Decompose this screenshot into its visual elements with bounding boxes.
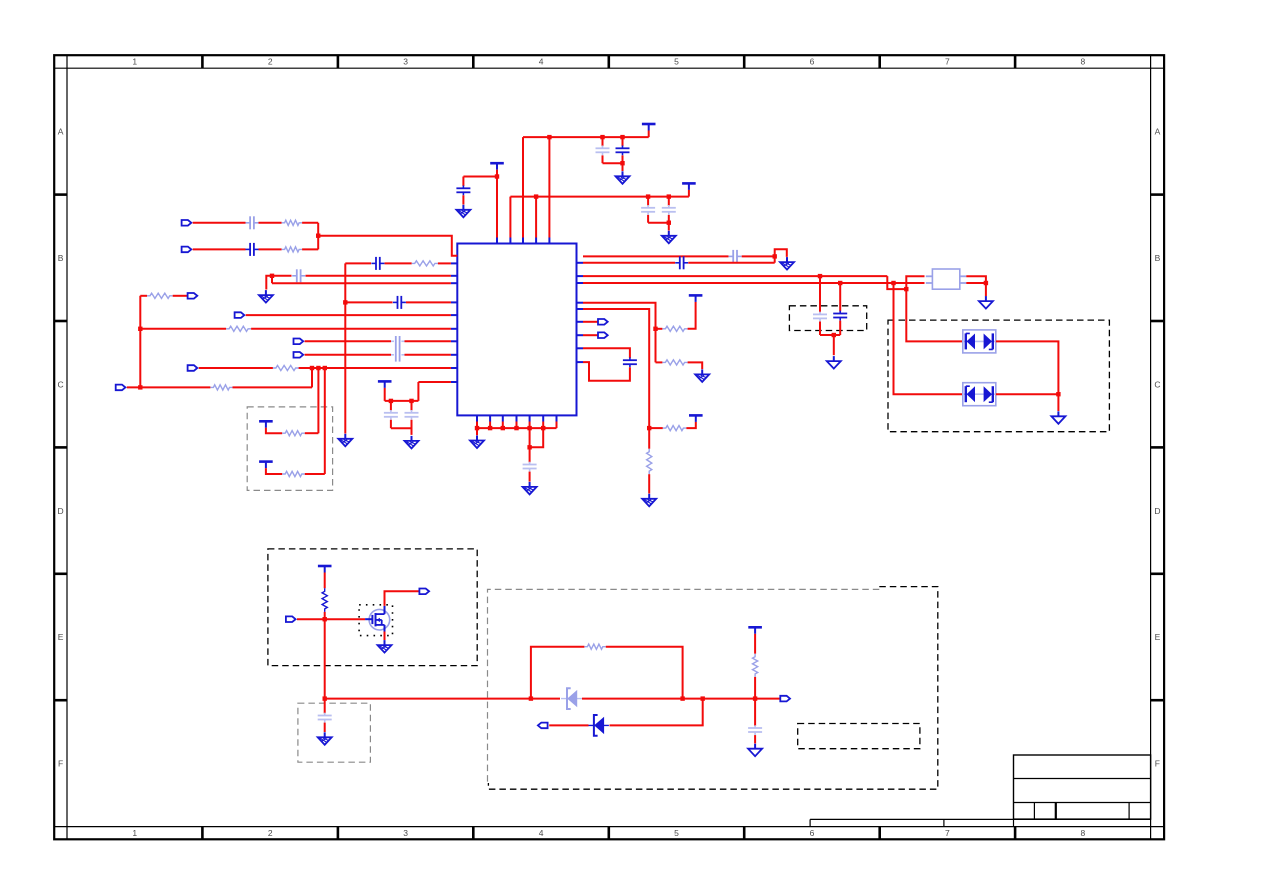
wire	[775, 249, 787, 262]
wire	[530, 428, 544, 447]
inductor L1	[926, 269, 967, 289]
resistor R6	[273, 365, 299, 370]
ground	[979, 296, 993, 309]
wire	[820, 334, 840, 336]
wire	[754, 634, 756, 654]
node junction	[680, 696, 684, 700]
wire	[656, 361, 663, 363]
capacitor C9	[596, 146, 610, 156]
wire	[272, 275, 292, 277]
node junction	[316, 366, 320, 370]
diode D1	[561, 688, 582, 709]
node junction	[547, 135, 551, 139]
wire	[894, 283, 963, 394]
pin P10	[598, 332, 608, 338]
wire	[311, 368, 313, 387]
ground	[695, 369, 709, 382]
wire	[405, 340, 451, 342]
wire	[418, 381, 451, 383]
ground	[338, 434, 352, 447]
wire	[583, 262, 675, 264]
capacitor C20	[318, 713, 332, 723]
wire	[305, 432, 319, 434]
node junction	[488, 426, 492, 430]
pin P8	[116, 385, 126, 391]
wire	[529, 472, 531, 482]
wire	[668, 215, 670, 223]
wire	[127, 386, 211, 388]
capacitor C1	[246, 216, 259, 229]
suppressor U3	[963, 383, 996, 406]
wire	[647, 197, 649, 206]
node junction	[527, 426, 531, 430]
capacitor C19	[523, 462, 537, 472]
wire	[686, 422, 695, 428]
capacitor C5	[393, 296, 406, 309]
resistor R16 (vertical)	[753, 654, 758, 677]
wire	[582, 698, 780, 700]
wire	[139, 296, 141, 388]
node junction	[270, 274, 274, 278]
wire	[549, 724, 588, 726]
wire	[477, 427, 557, 429]
suppressor U2	[963, 330, 996, 353]
wire	[996, 393, 1059, 395]
wire	[610, 699, 703, 726]
wire	[305, 340, 391, 342]
resistor R7	[210, 385, 232, 390]
svg-text:6: 6	[810, 57, 815, 67]
power VCC	[378, 381, 392, 388]
svg-text:A: A	[58, 127, 64, 137]
wire	[648, 131, 650, 138]
wire	[390, 401, 392, 411]
wire	[754, 735, 756, 743]
svg-text:1: 1	[132, 57, 137, 67]
wire	[266, 468, 282, 474]
svg-text:B: B	[1155, 253, 1161, 263]
wire	[193, 248, 246, 250]
pin P5	[294, 339, 304, 345]
U1 top pin stubs	[497, 238, 549, 244]
wire	[233, 386, 313, 388]
pin P11	[286, 616, 296, 622]
svg-text:2: 2	[268, 57, 273, 67]
svg-text:B: B	[58, 253, 64, 263]
wire	[647, 215, 649, 223]
wire	[648, 222, 669, 224]
wire	[649, 427, 663, 429]
wire	[602, 137, 604, 146]
wire	[535, 197, 537, 238]
power VCC	[259, 462, 273, 469]
wire	[668, 197, 670, 206]
node junction	[838, 281, 842, 285]
wire	[411, 420, 413, 428]
pin P6	[294, 352, 304, 358]
ground	[662, 231, 676, 244]
wire	[411, 401, 413, 411]
wire	[894, 282, 925, 284]
node junction	[323, 696, 327, 700]
ground	[318, 732, 332, 745]
svg-text:C: C	[1154, 379, 1160, 389]
wire	[477, 422, 557, 429]
ground	[523, 482, 537, 495]
wire	[583, 334, 598, 336]
wire	[906, 276, 924, 289]
svg-text:3: 3	[403, 57, 408, 67]
ground	[780, 257, 794, 270]
wire	[548, 137, 550, 237]
node junction	[773, 254, 777, 258]
wire	[510, 196, 689, 198]
net-class box (driver)	[268, 549, 477, 666]
wire	[302, 222, 318, 224]
svg-text:8: 8	[1081, 57, 1086, 67]
wire	[839, 321, 841, 335]
capacitor C15	[675, 256, 688, 269]
IC U1	[457, 244, 576, 416]
wire	[297, 618, 365, 620]
selection box Q1	[359, 605, 392, 636]
svg-text:3: 3	[403, 828, 408, 838]
U1 right pin stubs	[577, 263, 584, 362]
wire	[251, 328, 451, 330]
wire	[344, 263, 346, 433]
capacitor C8	[405, 410, 419, 420]
svg-text:C: C	[58, 379, 64, 389]
ground	[259, 290, 273, 303]
svg-text:2: 2	[268, 828, 273, 838]
power VCC	[689, 415, 703, 422]
node junction	[316, 234, 320, 238]
wire	[259, 248, 282, 250]
node junction	[495, 174, 499, 178]
transistor Q1	[365, 606, 390, 632]
ground	[642, 494, 656, 507]
wire	[325, 698, 560, 700]
wire	[819, 276, 821, 312]
capacitor C10	[616, 146, 630, 156]
power VCC	[748, 627, 762, 634]
resistor R15	[584, 644, 605, 649]
wire	[385, 591, 420, 606]
node junction	[323, 366, 327, 370]
svg-text:5: 5	[674, 828, 679, 838]
svg-text:4: 4	[539, 828, 544, 838]
wire	[688, 190, 690, 197]
wire	[305, 473, 325, 475]
node junction	[667, 194, 671, 198]
wire	[742, 255, 775, 257]
net-class box (output network) black part	[488, 587, 937, 790]
U1 left pin stubs	[451, 263, 457, 382]
pin P2	[182, 247, 192, 253]
svg-text:4: 4	[539, 57, 544, 67]
pin P1	[182, 220, 192, 226]
ground	[1051, 411, 1065, 424]
wire	[583, 282, 894, 284]
wire	[140, 295, 147, 297]
wire	[306, 275, 451, 277]
node junction	[620, 135, 624, 139]
capacitor C16	[813, 312, 827, 322]
wire	[622, 163, 624, 171]
wire	[688, 302, 696, 329]
svg-text:F: F	[58, 759, 63, 769]
node junction	[323, 617, 327, 621]
capacitor C2	[246, 243, 259, 256]
wire	[603, 162, 623, 164]
wire	[583, 255, 729, 257]
svg-text:D: D	[1154, 506, 1160, 516]
wire	[529, 428, 531, 462]
resistor R1	[282, 220, 303, 225]
wire	[417, 382, 419, 401]
wire	[391, 428, 412, 435]
power VCC	[318, 566, 332, 573]
U1 bottom pin stubs	[477, 415, 557, 421]
node junction	[514, 426, 518, 430]
svg-text:8: 8	[1081, 828, 1086, 838]
wire	[688, 362, 703, 369]
wire	[385, 262, 412, 264]
resistor R10	[662, 326, 687, 331]
net-class box (pullup resistors)	[247, 407, 332, 491]
wire	[384, 632, 386, 641]
power VCC	[682, 183, 696, 190]
wire	[246, 314, 451, 316]
wire	[966, 276, 986, 296]
capacitor C11	[456, 186, 470, 196]
ground	[616, 171, 630, 184]
capacitor C3	[371, 257, 384, 270]
wire	[583, 303, 656, 363]
wire	[305, 354, 391, 356]
resistor R13	[663, 426, 687, 431]
svg-text:6: 6	[810, 828, 815, 838]
node junction	[138, 327, 142, 331]
node junction	[501, 426, 505, 430]
wire	[317, 368, 319, 433]
node junction	[753, 696, 757, 700]
pin P14	[538, 723, 548, 729]
wire	[199, 367, 273, 369]
node junction	[409, 399, 413, 403]
node junction	[541, 426, 545, 430]
wire	[385, 400, 419, 402]
pin P12	[419, 589, 429, 595]
resistor R3	[412, 261, 438, 266]
svg-text:F: F	[1155, 759, 1160, 769]
wire	[583, 362, 630, 381]
wire	[583, 275, 887, 277]
wire	[390, 420, 392, 428]
capacitor C4	[292, 269, 305, 282]
wire	[266, 276, 272, 290]
diode D2	[588, 715, 609, 736]
pin P3	[235, 312, 245, 318]
node junction	[527, 445, 531, 449]
pin P7	[188, 365, 198, 371]
pin P4	[188, 293, 198, 299]
svg-text:7: 7	[945, 828, 950, 838]
wire	[622, 155, 624, 163]
capacitor C21	[748, 725, 762, 735]
wire	[668, 223, 670, 231]
wire	[754, 677, 756, 726]
power VCC	[642, 124, 656, 131]
net-class box (suppressors)	[888, 320, 1109, 432]
node junction	[475, 426, 479, 430]
node junction	[310, 366, 314, 370]
wire	[463, 176, 497, 178]
ground	[378, 640, 392, 653]
wire	[259, 222, 282, 224]
wire	[476, 428, 478, 435]
wire	[272, 282, 451, 284]
wire	[324, 723, 326, 732]
resistor R2	[282, 247, 303, 252]
power VCC	[490, 163, 504, 170]
svg-text:E: E	[1155, 632, 1161, 642]
node junction	[389, 399, 393, 403]
wire	[887, 276, 906, 289]
wire	[345, 301, 392, 303]
ground	[748, 744, 762, 757]
node junction	[653, 327, 657, 331]
power VCC	[689, 295, 703, 302]
wire	[606, 647, 683, 699]
node junction	[600, 135, 604, 139]
wire	[317, 223, 319, 250]
wire	[324, 699, 326, 714]
wire	[819, 322, 821, 336]
wire	[462, 177, 464, 187]
svg-text:E: E	[58, 632, 64, 642]
wire	[906, 289, 962, 341]
node junction	[529, 696, 533, 700]
wire	[602, 155, 604, 163]
wire	[384, 388, 386, 401]
net-class box (output network) gray part	[488, 589, 880, 783]
resistor R14 (vertical)	[322, 588, 327, 612]
wire	[1057, 394, 1059, 411]
wire	[583, 348, 630, 358]
capacitor C17	[833, 311, 847, 321]
wire	[622, 137, 624, 146]
svg-text:D: D	[58, 506, 64, 516]
power VCC	[259, 421, 273, 428]
wire	[406, 301, 451, 303]
wire	[523, 136, 649, 138]
wire	[324, 368, 326, 474]
resistor R12 (vertical)	[647, 449, 652, 475]
capacitor C14	[729, 250, 742, 263]
node junction	[646, 194, 650, 198]
wire	[173, 295, 188, 297]
wire	[833, 335, 835, 355]
node junction	[891, 281, 895, 285]
svg-text:A: A	[1155, 127, 1161, 137]
pin P9	[598, 319, 608, 325]
capacitor C6 (dual-line)	[391, 336, 405, 362]
node junction	[647, 426, 651, 430]
ground	[456, 205, 470, 218]
node junction	[701, 696, 705, 700]
wire	[302, 248, 318, 250]
wire	[688, 262, 774, 264]
wire	[345, 262, 371, 264]
ground	[470, 436, 484, 449]
wire	[299, 367, 451, 369]
wire	[496, 170, 498, 238]
wire	[324, 573, 326, 589]
resistor R9	[282, 471, 305, 476]
wire	[405, 354, 451, 356]
wire	[839, 283, 841, 311]
node junction	[984, 281, 988, 285]
wire	[318, 236, 457, 256]
net-class box (filter cap)	[298, 703, 371, 762]
svg-text:5: 5	[674, 57, 679, 67]
ground	[827, 356, 841, 369]
ground	[405, 436, 419, 449]
label box (empty)	[798, 724, 920, 749]
wire	[583, 321, 598, 323]
resistor R5	[226, 326, 251, 331]
wire	[656, 328, 663, 330]
node junction	[138, 385, 142, 389]
wire	[583, 309, 649, 449]
svg-text:1: 1	[132, 828, 137, 838]
node junction	[343, 300, 347, 304]
svg-text:7: 7	[945, 57, 950, 67]
wire	[648, 474, 650, 493]
wire	[193, 222, 246, 224]
resistor R11	[662, 360, 687, 365]
wire	[966, 282, 986, 284]
node junction	[620, 161, 624, 165]
node junction	[904, 287, 908, 291]
net-class box (decoupling caps)	[789, 306, 866, 331]
capacitor C7	[384, 410, 398, 420]
node junction	[1056, 392, 1060, 396]
capacitor C13	[662, 205, 676, 215]
wire	[462, 195, 464, 204]
node junction	[832, 333, 836, 337]
pin P13	[780, 696, 790, 702]
wire	[996, 341, 1059, 394]
wire	[531, 647, 585, 699]
node junction	[818, 274, 822, 278]
resistor R8	[282, 431, 305, 436]
wire	[266, 428, 282, 433]
wire	[509, 197, 511, 238]
wire	[522, 137, 524, 237]
node junction	[667, 221, 671, 225]
wire	[324, 612, 326, 699]
capacitor C18	[623, 357, 637, 367]
node junction	[534, 194, 538, 198]
capacitor C12	[641, 205, 655, 215]
wire	[140, 328, 226, 330]
resistor R4	[147, 293, 173, 298]
wire	[271, 276, 273, 283]
wire	[438, 262, 451, 264]
